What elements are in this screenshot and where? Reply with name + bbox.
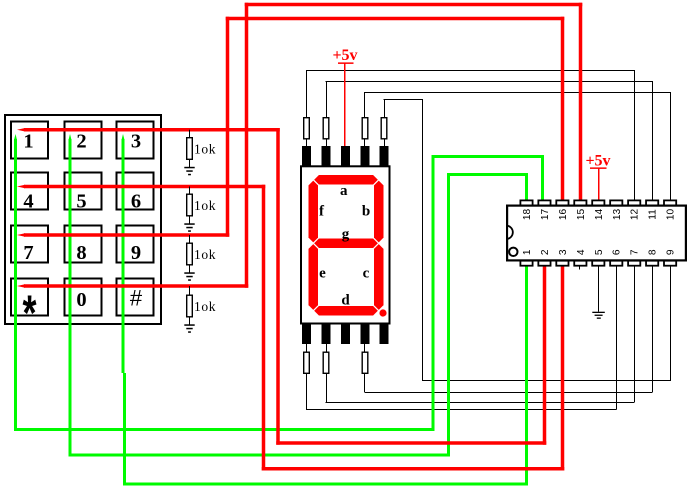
wire 7seg top pin4 to IC pin10: up	[364, 92, 365, 117]
wire 7seg bottom pin4 to IC pin8: down	[364, 374, 365, 392]
svg-text:5: 5	[594, 249, 605, 255]
svg-text:16: 16	[558, 209, 569, 221]
svg-text:+5v: +5v	[332, 47, 357, 64]
IC pin 3 pad (bottom)	[556, 261, 568, 266]
keypad digit *	[19, 292, 41, 348]
7-seg segment g (middle bar)	[314, 239, 378, 249]
7-segment display body	[301, 166, 390, 323]
wire 7seg top pin5 to IC pin9: across bottom	[422, 380, 671, 381]
IC pin 2 pad (bottom)	[538, 261, 550, 266]
keypad outer frame	[5, 115, 161, 324]
wire stub top resistor pin5 to pad	[384, 140, 385, 147]
keypad button 2	[65, 122, 102, 159]
wire col2 top horizontal to IC pin18	[447, 173, 528, 176]
wire col1 bottom horizontal	[14, 428, 435, 431]
wire col2 drop to IC pin 18	[525, 173, 528, 200]
wire keypad row4 horizontal (net ROW4)	[17, 284, 25, 288]
resistor R1 10k body	[187, 138, 193, 160]
svg-text:1: 1	[23, 131, 33, 153]
wire col3 riser to IC pin 1	[525, 266, 528, 486]
7-seg bottom pin 1 pad	[302, 325, 311, 345]
svg-text:8: 8	[76, 242, 86, 264]
svg-text:d: d	[341, 293, 350, 309]
ground symbol below R3	[184, 272, 194, 274]
svg-text:2: 2	[540, 249, 551, 255]
7-seg segment d (bottom bar)	[314, 306, 378, 316]
svg-text:g: g	[342, 227, 350, 243]
svg-text:1ok: 1ok	[194, 299, 216, 314]
wire 7seg bottom pin1 to IC pin6: across	[306, 409, 617, 410]
wire keypad col2 vertical (net COL2)	[69, 134, 72, 140]
svg-text:9: 9	[666, 249, 677, 255]
svg-text:3: 3	[558, 249, 569, 255]
wire 7seg top pin2 to IC pin11: down	[652, 82, 653, 201]
IC U1 pin-1 marker circle	[509, 248, 517, 256]
wire 7seg bottom pin2 to IC pin7: across	[326, 402, 635, 403]
wire col3 vertical lower with small jog	[123, 373, 126, 486]
keypad button 5	[65, 173, 102, 210]
7-seg decimal point	[379, 309, 386, 316]
segment resistor top pin5 body	[381, 118, 387, 139]
IC U1 pin-1 end notch	[507, 226, 513, 239]
wire stub row4 to resistor R4	[189, 286, 190, 295]
svg-text:8: 8	[648, 249, 659, 255]
keypad button 4	[11, 173, 48, 210]
svg-text:12: 12	[630, 209, 641, 221]
wire row3 top horizontal to IC pin16 column	[226, 17, 565, 21]
keypad button 0	[65, 279, 102, 316]
wire 7seg top pin4 to IC pin10: across	[365, 92, 672, 93]
7-seg segment b (upper-right bar)	[374, 181, 384, 243]
IC pin 6 pad (bottom)	[610, 261, 622, 266]
wire keypad col3 vertical upper (net COL3)	[122, 134, 125, 140]
svg-text:15: 15	[576, 209, 587, 221]
7-seg segment f (upper-left bar)	[309, 181, 319, 243]
IC pin 7 pad (bottom)	[628, 261, 640, 266]
wire row4 drop to IC pin 15	[579, 3, 583, 200]
wire row4 top horizontal to IC pin15 column	[245, 3, 583, 7]
wire 7seg top pin5 to IC pin9: across short	[384, 99, 424, 100]
svg-text:+5v: +5v	[585, 153, 610, 170]
IC pin 12 pad (top)	[628, 200, 640, 205]
wire 7seg bottom pin2 to IC pin7: riser	[634, 266, 635, 402]
wire 7seg bottom pin4 to IC pin8: riser	[652, 266, 653, 392]
7-seg bottom pin 2 pad	[322, 325, 331, 345]
wire keypad row2 horizontal (net ROW2)	[17, 185, 25, 189]
wire stub resistor R4 to ground	[189, 318, 190, 326]
wire col2 riser at x=448.5	[447, 173, 450, 457]
segment resistor bottom pin1 body	[304, 352, 310, 373]
wire 7seg top pin1 to IC pin12: up	[306, 71, 307, 117]
wire col1 riser at x=433	[432, 155, 435, 431]
wire 7seg top pin5 to IC pin9: riser to pin9	[670, 266, 671, 381]
svg-text:11: 11	[648, 209, 659, 220]
wire col2 bottom horizontal	[69, 454, 451, 457]
7-seg top pin 3 pad	[341, 146, 350, 166]
keypad button *	[11, 279, 48, 316]
IC pin 11 pad (top)	[646, 200, 658, 205]
wire row2 vertical down at x=263.5	[262, 185, 266, 471]
7-seg bottom pin 4 pad	[361, 325, 370, 345]
wire row3 drop to IC pin 16	[561, 17, 565, 200]
+5v supply to IC pin 14	[598, 168, 600, 200]
wire row2 bottom horizontal to IC pin3 column	[262, 467, 565, 471]
IC pin 1 pad (bottom)	[520, 261, 532, 266]
keypad button 6	[117, 173, 154, 210]
wire stub bottom pad pin4 to resistor	[364, 344, 365, 352]
7-seg bottom pin 5 pad	[380, 325, 389, 345]
IC pin 9 pad (bottom)	[664, 261, 676, 266]
wire 7seg bottom pin2 to IC pin7: down	[326, 374, 327, 402]
keypad button 3	[117, 122, 154, 159]
7-seg top pin 5 pad	[380, 146, 389, 166]
7-seg top pin 1 pad	[302, 146, 311, 166]
wire stub top resistor pin2 to pad	[326, 140, 327, 147]
svg-text:4: 4	[576, 249, 587, 255]
svg-text:10: 10	[666, 209, 677, 221]
wire stub bottom pad pin2 to resistor	[326, 344, 327, 352]
svg-text:9: 9	[131, 242, 141, 264]
segment resistor bottom pin2 body	[323, 352, 329, 373]
IC pin 17 pad (top)	[538, 200, 550, 205]
wire keypad row3 horizontal (net ROW3)	[17, 233, 25, 237]
wire stub top resistor pin4 to pad	[364, 140, 365, 147]
keypad button 8	[65, 226, 102, 263]
resistor R2 10k body	[187, 194, 193, 216]
svg-text:#: #	[130, 286, 143, 311]
wire keypad col1 vertical (net COL1)	[14, 134, 17, 140]
+5v supply to 7seg common (pin3)	[344, 63, 346, 146]
IC pin 16 pad (top)	[556, 200, 568, 205]
wire IC pin 5 to ground	[598, 266, 599, 312]
keypad button 9	[117, 226, 154, 263]
IC pin 13 pad (top)	[610, 200, 622, 205]
svg-text:*: *	[19, 292, 41, 348]
svg-text:7: 7	[23, 242, 33, 264]
segment resistor top pin2 body	[323, 118, 329, 139]
keypad button 7	[11, 226, 48, 263]
resistor R3 10k body	[187, 243, 193, 265]
svg-text:7: 7	[630, 249, 641, 255]
wire 7seg bottom pin1 to IC pin6: riser	[616, 266, 617, 410]
keypad button 1	[11, 122, 48, 159]
wire row1 riser to IC pin 2	[543, 266, 547, 445]
wire 7seg top pin2 to IC pin11: across	[326, 81, 654, 82]
wire stub bottom pad pin1 to resistor	[306, 344, 307, 352]
IC pin 10 pad (top)	[664, 200, 676, 205]
IC pin 8 pad (bottom)	[646, 261, 658, 266]
svg-text:14: 14	[594, 209, 605, 221]
wire row1 bottom horizontal to IC pin2 column	[276, 441, 546, 445]
svg-text:1ok: 1ok	[194, 142, 216, 157]
svg-text:13: 13	[612, 209, 623, 221]
7-seg bottom pin 3 pad	[341, 325, 350, 345]
IC U1 18-pin DIP body	[507, 206, 686, 261]
ground symbol below R2	[184, 223, 194, 225]
IC pin 4 stub	[579, 266, 580, 270]
wire 7seg top pin5 to IC pin9: down right of display	[422, 100, 423, 382]
IC pin 18 pad (top)	[520, 200, 532, 205]
svg-text:3: 3	[131, 131, 141, 153]
7-seg top pin 4 pad	[361, 146, 370, 166]
wire stub top resistor pin1 to pad	[306, 140, 307, 147]
wire stub resistor R3 to ground	[189, 266, 190, 274]
svg-text:17: 17	[540, 209, 551, 221]
wire stub row1 to resistor R1	[189, 130, 190, 137]
wire keypad row1 horizontal (net ROW1)	[17, 128, 25, 132]
wire col3 bottom horizontal to IC pin1 column	[123, 483, 528, 486]
svg-text:c: c	[363, 266, 370, 282]
wire 7seg top pin5 to IC pin9: up	[384, 100, 385, 118]
ground symbol below R1	[184, 167, 194, 169]
wire 7seg top pin1 to IC pin12: across	[306, 70, 635, 71]
segment resistor top pin1 body	[304, 118, 310, 139]
svg-text:0: 0	[76, 289, 86, 311]
segment resistor top pin4 body	[362, 118, 368, 139]
IC pin 14 pad (top)	[592, 200, 604, 205]
wire row4 vertical up at x=246.5	[245, 3, 249, 288]
wire stub resistor R2 to ground	[189, 217, 190, 225]
wire col1 drop to IC pin 17	[541, 155, 544, 200]
ground symbol at IC pin 5	[592, 312, 605, 313]
wire row3 vertical up at x=227.5	[226, 17, 230, 237]
svg-text:1ok: 1ok	[194, 198, 216, 213]
svg-text:6: 6	[612, 249, 623, 255]
IC pin 15 pad (top)	[574, 200, 586, 205]
7-seg top pin 2 pad	[322, 146, 331, 166]
ground symbol below R4	[184, 324, 194, 326]
svg-text:18: 18	[522, 209, 533, 221]
wire stub resistor R1 to ground	[189, 160, 190, 168]
svg-text:5: 5	[76, 191, 86, 213]
wire col1 top horizontal to IC pin17	[432, 155, 545, 158]
wire row1 vertical down at x=278	[276, 128, 280, 445]
svg-text:b: b	[362, 204, 370, 220]
wire 7seg top pin2 to IC pin11: up	[326, 82, 327, 118]
wire stub row2 to resistor R2	[189, 187, 190, 194]
wire 7seg bottom pin4 to IC pin8: across	[365, 392, 653, 393]
wire stub row3 to resistor R3	[189, 235, 190, 243]
wire 7seg bottom pin1 to IC pin6: down	[306, 374, 307, 410]
svg-text:1: 1	[522, 249, 533, 255]
svg-text:1ok: 1ok	[194, 247, 216, 262]
segment resistor bottom pin4 body	[362, 352, 368, 373]
wire 7seg top pin1 to IC pin12: down	[634, 71, 635, 200]
wire 7seg top pin4 to IC pin10: down	[670, 92, 671, 200]
svg-text:4: 4	[23, 191, 33, 213]
svg-text:e: e	[319, 266, 326, 282]
wire row2 riser to IC pin 3	[561, 266, 565, 471]
IC pin 4 pad (bottom)	[574, 261, 586, 266]
resistor R4 10k body	[187, 295, 193, 317]
svg-text:6: 6	[131, 191, 141, 213]
svg-text:a: a	[340, 183, 348, 199]
7-seg segment c (lower-right bar)	[374, 244, 384, 310]
IC pin 5 pad (bottom)	[592, 261, 604, 266]
7-seg segment e (lower-left bar)	[309, 244, 319, 310]
keypad button #	[117, 279, 154, 316]
svg-text:2: 2	[76, 131, 86, 153]
7-seg segment a (top bar)	[314, 175, 378, 185]
